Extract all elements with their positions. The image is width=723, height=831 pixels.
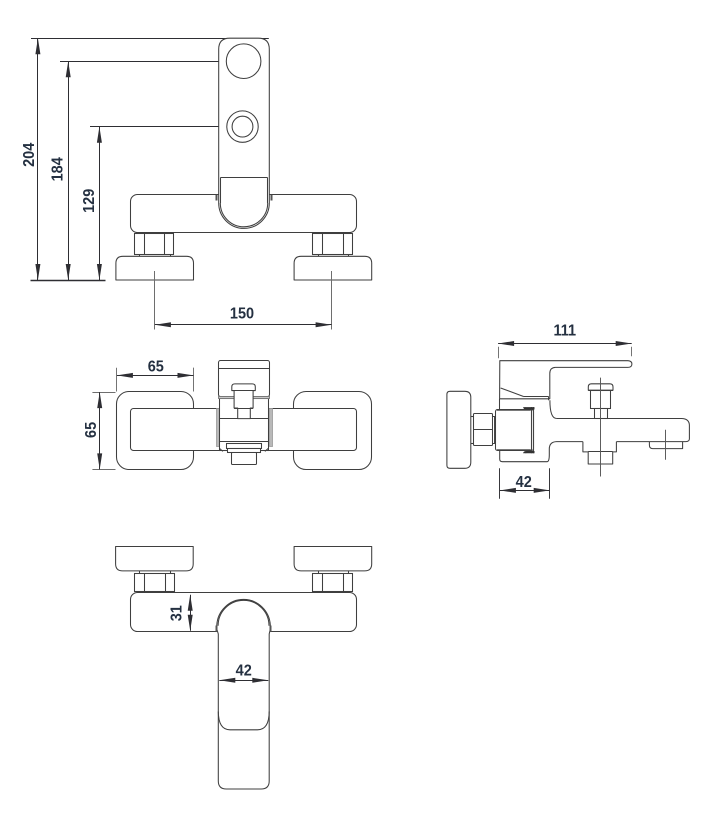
svg-text:42: 42	[516, 473, 532, 491]
svg-text:129: 129	[81, 189, 99, 213]
svg-text:111: 111	[554, 322, 577, 340]
svg-text:65: 65	[148, 358, 164, 376]
svg-text:204: 204	[20, 142, 38, 167]
svg-text:31: 31	[168, 605, 186, 621]
svg-text:150: 150	[230, 305, 254, 323]
svg-text:42: 42	[236, 662, 252, 680]
svg-text:184: 184	[49, 157, 67, 182]
svg-text:65: 65	[83, 422, 101, 438]
